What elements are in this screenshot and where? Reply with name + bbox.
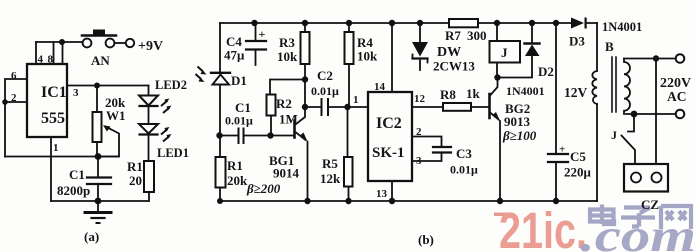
svg-text:+: + — [559, 144, 565, 156]
svg-text:10k: 10k — [277, 49, 298, 64]
svg-text:C1: C1 — [69, 167, 85, 182]
svg-text:(b): (b) — [418, 232, 434, 247]
svg-text:0.01μ: 0.01μ — [450, 163, 478, 177]
svg-text:R7: R7 — [445, 28, 461, 43]
svg-text:3: 3 — [416, 155, 422, 167]
svg-text:R2: R2 — [276, 96, 292, 111]
svg-text:LED2: LED2 — [155, 78, 187, 92]
svg-text:C3: C3 — [456, 146, 472, 161]
svg-text:9014: 9014 — [273, 166, 300, 181]
svg-text:14: 14 — [374, 81, 386, 93]
svg-text:D1: D1 — [231, 73, 247, 88]
svg-text:8200p: 8200p — [57, 183, 90, 198]
svg-text:12: 12 — [414, 93, 426, 105]
svg-text:B: B — [605, 39, 614, 54]
svg-text:47μ: 47μ — [224, 48, 245, 63]
svg-text:+9V: +9V — [138, 39, 163, 54]
svg-text:12V: 12V — [564, 85, 588, 100]
svg-text:10k: 10k — [357, 49, 378, 64]
svg-text:C5: C5 — [570, 149, 586, 164]
svg-text:R3: R3 — [279, 35, 295, 50]
svg-text:AN: AN — [91, 53, 110, 68]
svg-text:1M: 1M — [279, 112, 298, 127]
svg-text:CZ: CZ — [641, 197, 659, 212]
svg-text:0.01μ: 0.01μ — [311, 84, 339, 98]
svg-text:2: 2 — [11, 92, 17, 104]
svg-text:+: + — [259, 27, 266, 41]
svg-text:555: 555 — [41, 110, 65, 127]
svg-text:21ic.: 21ic. — [499, 202, 587, 252]
svg-text:13: 13 — [376, 188, 388, 200]
svg-text:R8: R8 — [440, 87, 456, 102]
svg-text:1N4001: 1N4001 — [602, 20, 642, 34]
svg-text:1: 1 — [353, 94, 359, 106]
svg-text:20: 20 — [129, 173, 142, 188]
svg-text:2CW13: 2CW13 — [433, 59, 475, 74]
svg-text:β≥100: β≥100 — [502, 128, 537, 143]
svg-text:R1: R1 — [227, 158, 243, 173]
svg-text:300: 300 — [467, 28, 487, 43]
svg-text:9013: 9013 — [504, 114, 531, 129]
svg-text:LED1: LED1 — [157, 146, 189, 160]
svg-text:220μ: 220μ — [564, 165, 592, 180]
svg-text:20k: 20k — [227, 173, 248, 188]
svg-text:IC2: IC2 — [376, 115, 402, 132]
svg-text:β≥200: β≥200 — [246, 181, 281, 196]
svg-text:J: J — [501, 45, 508, 60]
svg-text:R5: R5 — [322, 156, 338, 171]
svg-text:IC1: IC1 — [41, 84, 67, 101]
svg-text:1N4001: 1N4001 — [506, 84, 545, 98]
svg-text:1: 1 — [53, 142, 59, 154]
svg-text:SK-1: SK-1 — [372, 145, 405, 161]
svg-text:D2: D2 — [538, 64, 554, 79]
svg-text:AC: AC — [667, 89, 687, 104]
svg-text:D3: D3 — [569, 34, 585, 49]
svg-text:2: 2 — [416, 126, 422, 138]
svg-text:3: 3 — [73, 87, 79, 99]
svg-text:R1: R1 — [127, 159, 143, 174]
svg-text:12k: 12k — [320, 171, 341, 186]
svg-text:C2: C2 — [317, 68, 333, 83]
svg-text:(a): (a) — [84, 229, 99, 244]
svg-text:1k: 1k — [466, 86, 481, 101]
svg-text:0.01μ: 0.01μ — [225, 114, 253, 128]
svg-text:6: 6 — [11, 70, 17, 82]
svg-text:W1: W1 — [106, 108, 126, 123]
svg-text:4: 4 — [38, 54, 44, 66]
svg-text:J: J — [611, 128, 617, 142]
svg-text:8: 8 — [48, 54, 54, 66]
